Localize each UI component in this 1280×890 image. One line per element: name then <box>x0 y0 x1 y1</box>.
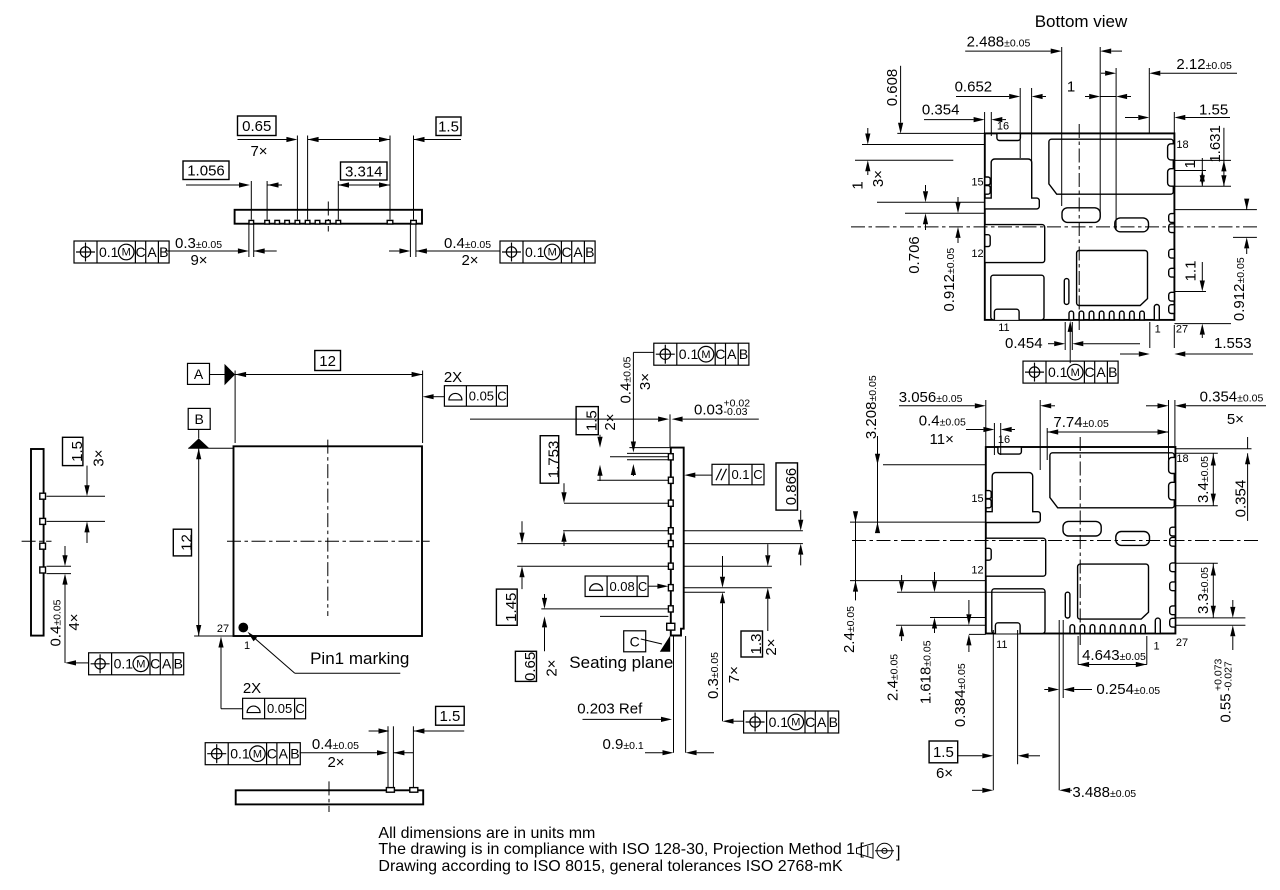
dim 3.056 line <box>899 405 975 407</box>
side view (left) leads <box>40 493 46 499</box>
svg-text:0.1: 0.1 <box>99 244 119 260</box>
lead4 extension lines <box>47 565 72 567</box>
dim box 0.65 <box>238 116 277 136</box>
extension lines upper dims <box>250 181 252 220</box>
top view centerline vertical <box>327 440 329 616</box>
projection method symbol circles <box>877 843 892 858</box>
left row lines lower view <box>883 464 986 466</box>
svg-text:12: 12 <box>971 248 983 260</box>
dim 2.12 line <box>1101 72 1105 74</box>
svg-text:1: 1 <box>1067 79 1075 96</box>
svg-text:18: 18 <box>1176 453 1188 465</box>
svg-text:12: 12 <box>179 534 196 551</box>
svg-text:0.1: 0.1 <box>230 746 250 762</box>
svg-text:1.056: 1.056 <box>187 163 225 180</box>
fcf profile upper leader <box>433 396 444 398</box>
fcf top center leader <box>633 351 653 353</box>
top view body square <box>234 446 423 636</box>
dim 0.03 line <box>470 418 658 420</box>
svg-text:C: C <box>638 579 647 594</box>
section lower extension lines <box>673 636 675 753</box>
svg-text:1: 1 <box>850 181 867 189</box>
lower view extension lines above <box>985 400 987 446</box>
fcf parallel frame <box>712 464 764 485</box>
dim box 0.866 rotated <box>776 463 798 510</box>
svg-text:0.05: 0.05 <box>469 389 494 404</box>
svg-text:A: A <box>194 366 204 382</box>
dim 2.488 line <box>965 50 1050 52</box>
fcf position bottom center leader <box>733 720 744 722</box>
fcf profile lower left <box>243 698 306 719</box>
section pad face extension line <box>669 414 671 447</box>
svg-text:0.354: 0.354 <box>922 102 960 119</box>
bottom edge extension left <box>194 635 233 637</box>
svg-text:0.05: 0.05 <box>267 701 292 716</box>
dim 0.3 7x vertical line <box>722 556 724 577</box>
svg-text:15: 15 <box>971 493 983 505</box>
top edge extension left upper view <box>897 132 985 134</box>
svg-text:M: M <box>1071 367 1080 379</box>
dim 0.912 vertical right <box>1246 199 1248 210</box>
dim 1.5 2x vertical line <box>599 435 601 437</box>
svg-text:2×: 2× <box>327 754 344 771</box>
svg-text:B: B <box>159 244 168 260</box>
svg-text:B: B <box>290 746 299 762</box>
dim box 1.5 bottom <box>436 706 465 725</box>
svg-text:The drawing is in compliance w: The drawing is in compliance with ISO 12… <box>378 841 864 858</box>
top view centerline horizontal <box>227 540 430 542</box>
dim 0.608 vertical <box>900 66 902 123</box>
svg-text:27: 27 <box>217 623 229 635</box>
fcf position top center <box>654 343 749 365</box>
fcf position left top <box>74 241 169 263</box>
datum A box <box>188 363 210 384</box>
svg-text:B: B <box>1108 364 1117 380</box>
dim 3.3 vertical <box>1212 563 1214 618</box>
svg-text:Seating plane: Seating plane <box>569 653 673 672</box>
dim 0.652 line <box>956 96 1009 98</box>
svg-text:27: 27 <box>1176 637 1188 649</box>
dim 0.454 line <box>1048 343 1054 345</box>
svg-text:-0.03: -0.03 <box>724 406 748 418</box>
svg-text:7×: 7× <box>726 666 743 683</box>
svg-text:C: C <box>630 633 640 649</box>
fcf position left mid leader <box>76 662 89 664</box>
projection method symbol cone <box>857 843 874 858</box>
fcf position upper bottom view <box>1023 361 1118 383</box>
pin1 marking dot <box>238 623 248 633</box>
svg-text:0.354: 0.354 <box>1233 480 1250 518</box>
svg-text:1.55: 1.55 <box>1199 102 1228 119</box>
svg-text:]: ] <box>896 844 900 861</box>
side view (left) body <box>31 449 44 636</box>
svg-text:1: 1 <box>1155 323 1161 335</box>
bottom view upper package <box>985 133 1175 320</box>
svg-text:2×: 2× <box>763 638 780 655</box>
svg-text:3×: 3× <box>637 373 654 390</box>
fcf position left mid <box>89 653 184 675</box>
dim 0.65 2x vertical line <box>544 594 546 598</box>
fcf position bottom <box>205 743 300 765</box>
dim box 12 horizontal <box>315 351 341 371</box>
svg-text:5×: 5× <box>1227 411 1244 428</box>
dim 0.65 / 1.5 line <box>238 139 287 141</box>
lower view bottom extension lines <box>992 630 994 790</box>
dim 7.74 line <box>1047 431 1168 433</box>
svg-text:A: A <box>817 714 827 730</box>
svg-text:11: 11 <box>998 322 1009 334</box>
svg-text:0.1: 0.1 <box>731 467 749 482</box>
svg-text:0.866: 0.866 <box>783 468 800 506</box>
svg-text:A: A <box>279 746 289 762</box>
svg-text:0.1: 0.1 <box>769 714 789 730</box>
dim 1.45 vertical line <box>521 521 523 532</box>
dim box 12 vertical <box>173 529 191 556</box>
dim 0.254 line <box>1044 689 1048 691</box>
dim box 1.753 rotated <box>540 436 559 484</box>
svg-text:2×: 2× <box>602 413 619 430</box>
dim 1.3 2x vertical line <box>767 544 769 555</box>
svg-text:1: 1 <box>1182 160 1199 168</box>
dim 1.1 vertical <box>1201 262 1203 281</box>
svg-text:18: 18 <box>1176 139 1188 151</box>
svg-text:2×: 2× <box>543 659 560 676</box>
dim 1.5 3x vertical <box>86 466 88 486</box>
svg-text:11×: 11× <box>930 431 954 448</box>
bottom view lead extension lines <box>387 726 389 787</box>
svg-text:0.652: 0.652 <box>955 79 993 96</box>
left row lines upper view <box>862 144 985 146</box>
fcf position right top <box>500 241 595 263</box>
bottom view lower centerlines <box>1079 437 1081 645</box>
svg-text:C: C <box>267 746 277 762</box>
extension lines lead width 0.4 <box>409 225 411 258</box>
svg-text:M: M <box>136 659 145 671</box>
dim 1.55 line <box>1125 117 1138 119</box>
svg-text:C: C <box>753 467 762 482</box>
right side lines lower view <box>1175 448 1252 450</box>
svg-text:C: C <box>135 244 145 260</box>
svg-text:A: A <box>1096 364 1106 380</box>
svg-text:M: M <box>791 717 800 729</box>
dim 4.643 line <box>1078 664 1147 666</box>
svg-text:M: M <box>701 349 710 361</box>
dim 0.354 5x line <box>1146 405 1158 407</box>
dim 1.631 vertical <box>1223 128 1225 186</box>
svg-text:0.203 Ref: 0.203 Ref <box>577 701 643 718</box>
svg-text:1.753: 1.753 <box>546 441 563 479</box>
dim box 1.5 6x <box>929 741 958 763</box>
dim box 1.5 left <box>63 437 83 465</box>
dim box 1.45 rotated <box>496 589 517 625</box>
svg-text:0.1: 0.1 <box>1048 364 1068 380</box>
dim 1.618 vertical <box>934 572 936 581</box>
dim 0.4 4x vertical <box>64 546 66 556</box>
dim 3.4 vertical <box>1212 453 1214 506</box>
section view body <box>671 448 684 636</box>
dim 2.4 far-left vertical <box>855 513 857 601</box>
side view (bottom) leads <box>386 788 394 793</box>
svg-text:B: B <box>195 411 204 427</box>
dim 0.912 vertical left <box>957 197 959 202</box>
dim box 1.056 <box>183 161 229 180</box>
top edge extension left <box>188 447 233 449</box>
svg-text:1.5: 1.5 <box>583 410 600 431</box>
svg-text:Pin1 marking: Pin1 marking <box>310 649 409 668</box>
fcf parallel leader <box>695 474 712 476</box>
dim 12 horizontal <box>235 374 423 376</box>
dim 12 vertical <box>198 448 200 636</box>
side view (bottom) body <box>236 790 424 804</box>
dim 3.208 vertical <box>877 436 879 530</box>
svg-text:C: C <box>561 244 571 260</box>
svg-text:A: A <box>573 244 583 260</box>
fcf profile 0.08 leader <box>649 585 659 587</box>
svg-text:1.5: 1.5 <box>69 441 86 462</box>
dim 0.3 +-0.05 9x line <box>165 250 238 252</box>
svg-text:1.5: 1.5 <box>439 708 460 725</box>
lower extension lines upper view <box>1064 322 1066 350</box>
svg-text:0.608: 0.608 <box>884 69 901 107</box>
svg-text:A: A <box>147 244 157 260</box>
svg-text:9×: 9× <box>190 252 207 269</box>
right row lines upper view <box>1174 159 1231 161</box>
dim 1.753 vertical line <box>563 483 565 492</box>
dim 0.9 line <box>645 752 663 754</box>
svg-text:1.1: 1.1 <box>1183 261 1200 282</box>
svg-text:C: C <box>1084 364 1094 380</box>
datum C box <box>624 631 646 652</box>
side view (top) body <box>235 210 422 224</box>
row extension lines right <box>684 530 803 532</box>
svg-text:M: M <box>253 748 262 760</box>
svg-text:16: 16 <box>998 434 1010 446</box>
svg-text:B: B <box>174 656 183 672</box>
svg-text:4×: 4× <box>66 613 83 630</box>
svg-text:15: 15 <box>971 177 983 189</box>
svg-text:7×: 7× <box>250 143 267 160</box>
svg-text:C: C <box>715 346 725 362</box>
dim 3.488 line <box>972 789 982 791</box>
dim 0.866 vertical line <box>800 510 802 520</box>
svg-text:A: A <box>727 346 737 362</box>
dim 0.354 line upper <box>924 119 974 121</box>
pin1 leader <box>250 634 295 673</box>
svg-text:B: B <box>829 714 838 730</box>
svg-text:Bottom view: Bottom view <box>1035 12 1128 31</box>
svg-text:0.1: 0.1 <box>679 346 699 362</box>
svg-text:12: 12 <box>971 565 983 577</box>
svg-text:M: M <box>548 247 557 259</box>
datum C leader <box>641 639 662 644</box>
extension line left for dim 12 <box>234 371 236 444</box>
svg-text:Drawing according to ISO 8015,: Drawing according to ISO 8015, general t… <box>378 858 843 875</box>
svg-text:2X: 2X <box>444 369 462 386</box>
svg-text:C: C <box>497 389 506 404</box>
dim 1.553 line <box>1120 353 1139 355</box>
fcf profile upper right <box>444 386 507 407</box>
dim 0.4 +-0.05 2x line <box>389 250 399 252</box>
extension lines lead width 0.3 <box>248 225 250 258</box>
dim 1 line upper <box>1085 96 1089 98</box>
svg-text:6×: 6× <box>936 765 953 782</box>
dim 1.5 6x line <box>958 755 983 757</box>
svg-text:11: 11 <box>996 639 1007 651</box>
fcf position bottom center <box>744 711 839 733</box>
dim 0.55 vertical <box>1232 600 1234 607</box>
svg-text:3×: 3× <box>90 449 107 466</box>
svg-text:1.45: 1.45 <box>503 593 520 622</box>
svg-text:0.65: 0.65 <box>522 652 539 681</box>
svg-text:27: 27 <box>1176 323 1188 335</box>
bottom view upper centerlines <box>1078 124 1080 330</box>
svg-text:1.631: 1.631 <box>1207 125 1224 163</box>
dim 0.203 Ref line <box>583 718 662 720</box>
svg-text:2X: 2X <box>243 680 261 697</box>
svg-text:1: 1 <box>244 640 250 652</box>
side view (top) centerline <box>327 202 329 232</box>
svg-text:B: B <box>739 346 748 362</box>
svg-text:0.65: 0.65 <box>242 118 271 135</box>
svg-text:C: C <box>150 656 160 672</box>
dim 0.4 11x line <box>966 429 983 431</box>
dim 0.706 vertical <box>925 185 927 191</box>
svg-text:12: 12 <box>319 353 336 370</box>
dim box 0.65 rotated <box>515 651 536 681</box>
svg-text:A: A <box>162 656 172 672</box>
svg-text:0.454: 0.454 <box>1005 335 1043 352</box>
svg-text:0.03: 0.03 <box>694 402 723 419</box>
side view (bottom) centerline <box>328 781 330 812</box>
dim box 1.5 top right <box>436 117 461 136</box>
svg-text:1.5: 1.5 <box>438 119 459 136</box>
svg-text:C: C <box>805 714 815 730</box>
dim 2.4 second vertical <box>901 575 903 581</box>
datum B box <box>188 408 210 429</box>
svg-text:2×: 2× <box>461 252 478 269</box>
svg-text:C: C <box>295 701 304 716</box>
left view lead row extension lines <box>47 495 106 497</box>
fcf upper bottom leader <box>1069 331 1071 363</box>
dim 1.5 bottom line <box>369 730 379 732</box>
svg-text:M: M <box>122 247 131 259</box>
datum A leader and triangle <box>210 374 225 376</box>
dim box 1.3 rotated <box>741 631 763 657</box>
svg-text:1.5: 1.5 <box>933 744 954 761</box>
seating plane datum triangle <box>660 636 670 652</box>
dim box 3.314 <box>341 162 388 180</box>
svg-text:0.706: 0.706 <box>906 236 923 274</box>
svg-text:3.314: 3.314 <box>345 163 383 180</box>
svg-text:-0.027: -0.027 <box>1223 661 1235 691</box>
bottom view lower package <box>986 447 1176 634</box>
section view leads <box>668 454 673 460</box>
side view (left) centerline <box>22 540 52 542</box>
dim box 1.5 center rotated <box>576 407 598 435</box>
dim 1 vertical right <box>1201 158 1203 186</box>
upper bottom view extension lines above <box>1061 47 1063 206</box>
dim 0.354 vertical right <box>1247 437 1249 449</box>
side view (top) leads <box>249 220 254 224</box>
svg-text:16: 16 <box>997 121 1009 133</box>
svg-text:0.08: 0.08 <box>609 579 634 594</box>
svg-text:3×: 3× <box>870 170 887 187</box>
dim 0.4 bottom line <box>300 752 377 754</box>
extension line right for dim 12 <box>422 371 424 444</box>
svg-text:All dimensions are in units mm: All dimensions are in units mm <box>378 825 595 842</box>
fcf profile 0.08 frame <box>585 576 648 597</box>
svg-text:0.55: 0.55 <box>1218 693 1235 722</box>
svg-text:1.553: 1.553 <box>1214 335 1252 352</box>
dim 1.056 / 3.314 line <box>186 184 239 186</box>
svg-text:1: 1 <box>1154 640 1160 652</box>
dim 1 3x vertical left <box>867 128 869 134</box>
svg-text:0.1: 0.1 <box>525 244 545 260</box>
svg-text:0.1: 0.1 <box>114 656 134 672</box>
svg-text:B: B <box>585 244 594 260</box>
fcf profile lower leader <box>221 708 243 710</box>
dim 0.384 vertical <box>968 600 970 614</box>
row extension lines left <box>629 447 670 449</box>
datum B leader and triangle <box>198 430 200 439</box>
